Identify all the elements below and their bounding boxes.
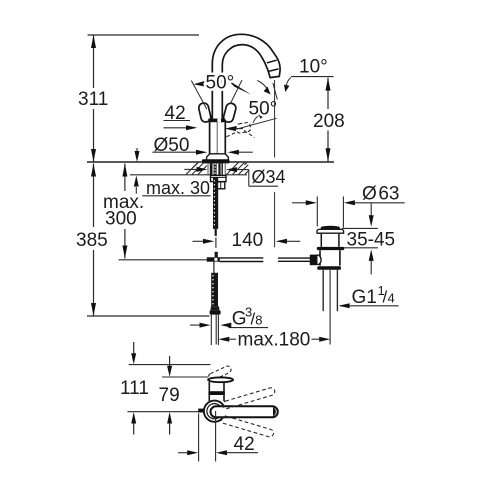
side view solid spout bar (211, 406, 278, 417)
42 arrowhead (186, 125, 197, 130)
dashed connector lower (244, 131, 255, 138)
50 deg swivel lower arc tail (253, 116, 259, 124)
Ø63 extension line right (342, 196, 344, 227)
body right side (224, 122, 226, 155)
spout aerator band line 2 (268, 69, 278, 72)
shank left arrow tail (184, 168, 197, 170)
side view spout bar end cap (273, 407, 276, 416)
140 right arrow tail (286, 240, 300, 242)
svg-text:140: 140 (232, 230, 264, 251)
50 deg swivel slanted line (237, 118, 277, 129)
drain tailpipe inner line (329, 270, 331, 345)
svg-text:max. 30: max. 30 (146, 178, 210, 198)
42 bottom right extension line (215, 411, 217, 462)
drain flange neck (321, 234, 339, 247)
side view mid reference line (79) (162, 376, 208, 378)
svg-text:79: 79 (159, 385, 180, 406)
counter-side left arrowhead at body (225, 126, 236, 131)
node 385 dimension line lower segment (93, 250, 95, 316)
spout axis tilted line (273, 83, 277, 100)
linkage rod left segment (220, 258, 264, 262)
escutcheon dark band (202, 159, 230, 163)
node 311 arrow down (91, 149, 96, 162)
svg-text:Ø 63: Ø 63 (362, 183, 400, 204)
208 dimension line upper segment (327, 78, 329, 109)
mounting washer and nut (211, 175, 227, 181)
drain flange disc (317, 229, 344, 233)
node max300 dimension line upper segment (124, 164, 126, 192)
upper hose braid dots (213, 180, 215, 226)
node max30 upper arrow (136, 148, 138, 152)
side view lever cap ellipse (208, 377, 233, 382)
max180 right tail (312, 338, 322, 340)
pull rod tick above linkage (215, 252, 218, 258)
dashed connector to swung spout (227, 132, 237, 137)
dashed swung spout tip (front view) (236, 122, 251, 133)
counter hatch right (227, 162, 250, 174)
Ø63 left arrow tail (292, 202, 307, 204)
Ø63 right arrowhead (344, 200, 355, 205)
42 underline (164, 120, 191, 122)
G3/8 underline (228, 327, 268, 329)
svg-text:10°: 10° (299, 56, 328, 77)
node 385 arrow down (91, 303, 96, 316)
svg-text:Ø34: Ø34 (252, 167, 286, 187)
50 deg swivel upper arrowhead (264, 87, 271, 95)
pull rod segment (215, 238, 217, 248)
svg-text:8: 8 (255, 312, 262, 327)
Ø63 left arrowhead (306, 200, 317, 205)
side view spout left tick (198, 409, 203, 413)
Ø34 underline (249, 185, 278, 187)
cartridge cap dark band (208, 119, 225, 123)
svg-text:max.180: max.180 (238, 329, 311, 350)
max180 right arrowhead (319, 337, 330, 342)
lever handle left position (198, 102, 212, 123)
lower hose braid dots (212, 275, 214, 305)
35-45 down arrow stem (370, 204, 372, 217)
Ø50 left arrowhead (196, 150, 207, 155)
node max30 lower arrow (135, 187, 137, 194)
G1 1/4 underline (340, 305, 399, 307)
counter hole left edge (207, 163, 209, 175)
50 deg swivel lower arrowhead (257, 109, 270, 119)
side view body dark ring (208, 391, 224, 395)
side view dashed spout upper (222, 387, 276, 410)
Ø50 leader line (152, 151, 197, 153)
G3/8 connector tube (211, 315, 218, 345)
node 311 dimension line lower segment (93, 109, 95, 162)
svg-text:300: 300 (105, 209, 137, 230)
node 385 dimension line upper segment (93, 164, 95, 228)
140 left arrowhead (203, 239, 214, 244)
node max300 dimension line lower segment (124, 229, 126, 259)
35-45 up arrowhead (369, 249, 374, 261)
G3/8 left arrowhead (200, 323, 211, 328)
35-45 top reference line (342, 227, 378, 229)
node 385 arrow up (91, 164, 96, 177)
svg-text:4: 4 (388, 291, 395, 306)
Ø50 right arrowhead (228, 150, 239, 155)
Ø50 right tail (238, 151, 253, 153)
lower braided hose neck (213, 262, 215, 274)
drain flange cap (321, 226, 341, 230)
side view dashed raised lever (207, 365, 232, 381)
svg-text:311: 311 (78, 89, 108, 110)
side view body column (209, 382, 224, 401)
Ø63 right tail (354, 202, 405, 204)
Ø34 leader vertical (248, 170, 250, 187)
42 bottom right arrow (216, 450, 227, 455)
G3/8 left arrow tail (190, 324, 200, 326)
svg-text:42: 42 (234, 434, 255, 455)
Ø34 leader horizontal (236, 169, 249, 171)
spout aerator band line 1 (267, 60, 277, 63)
threaded shank stripes (210, 163, 213, 176)
Ø34 arrowhead (226, 167, 237, 172)
drain side inlet black block (310, 255, 317, 266)
111 up arrow (133, 423, 135, 435)
42 bottom left extension line (198, 414, 200, 462)
111 down arrow (133, 342, 135, 354)
max180 left arrowhead (218, 337, 229, 342)
42 arrow line (164, 127, 189, 129)
10 deg arc arrowhead (284, 85, 289, 92)
lock nut below washer (217, 182, 225, 189)
node 311 dimension line upper segment (93, 35, 95, 88)
208 arrow down (326, 148, 331, 161)
drain body (320, 250, 340, 265)
wire max300 bottom reference line (119, 259, 208, 261)
hose end fitting flare (210, 306, 219, 310)
79 down arrow (169, 356, 171, 367)
shank left arrowhead (197, 167, 208, 172)
svg-text:111: 111 (120, 378, 149, 399)
wire top extension line for 311 (88, 34, 200, 36)
side view swivel circle inner (207, 404, 222, 419)
G3/8 nut band (210, 310, 221, 314)
side view top reference line (111) (129, 364, 211, 366)
upper braided hose (213, 177, 218, 229)
counter hole right edge (224, 163, 226, 175)
side view spout axis line (bottom ref) (127, 411, 200, 413)
drain tailpipe right wall (336, 270, 338, 311)
linkage rod right segment (278, 258, 311, 261)
pop-up linkage junction black bar (207, 257, 220, 261)
35-45 bottom reference line (341, 247, 378, 249)
svg-text:50°: 50° (206, 73, 235, 94)
svg-text:208: 208 (313, 111, 345, 132)
node counter top surface line (87, 161, 334, 163)
upper hose end tip (215, 229, 217, 236)
side view swivel circle outer (204, 401, 225, 422)
svg-text:385: 385 (76, 230, 108, 251)
50 deg swivel upper arc (257, 81, 268, 91)
208 arrow up (326, 78, 331, 91)
140 left arrow tail (193, 240, 205, 242)
node max300 arrow up (122, 164, 127, 177)
Ø63 extension line left (316, 196, 318, 226)
shank thread dots (214, 164, 216, 173)
node counter bottom line right of shank (225, 174, 247, 176)
counter hatch left (186, 162, 207, 174)
208 dimension line lower segment (327, 131, 329, 162)
35-45 up arrow stem (370, 260, 372, 275)
lower braided hose (211, 273, 218, 307)
50 deg handle arc right leg (231, 80, 243, 103)
side view dashed spout lower (221, 415, 275, 438)
drain side inlet rounded piece (317, 255, 321, 264)
outlet vertical extension line upper (274, 80, 276, 158)
outlet vertical extension line lower (274, 192, 276, 247)
svg-text:50°: 50° (249, 99, 278, 120)
wire hose-end reference line at 385 bottom (87, 315, 210, 317)
node counter bottom line left of shank (130, 174, 211, 176)
50 deg handle arc left arrowhead (194, 80, 208, 87)
42 bottom left arrow (178, 452, 188, 454)
10 deg underline / 208 top reference (291, 76, 334, 78)
max180 left tail (229, 338, 237, 340)
lever handle right position (223, 102, 237, 123)
node 311 arrow up (91, 35, 96, 48)
drain clamp dark band (317, 247, 345, 250)
drain tailpipe left wall (322, 270, 324, 311)
drain bottom nut band (317, 266, 341, 270)
79 up arrow (169, 423, 171, 435)
wire max30 underline (142, 195, 210, 197)
node max300 arrow down (122, 246, 127, 259)
spout outline (riser + arc + tip) (212, 34, 280, 121)
10 deg arc (286, 78, 291, 90)
35-45 down arrowhead (369, 215, 374, 227)
body inner highlight line (216, 123, 218, 155)
G1 1/4 arrowhead (339, 303, 350, 308)
50 deg handle arc right arrowhead (228, 80, 251, 95)
G3/8 right arrowhead (220, 323, 231, 328)
svg-text:G1: G1 (352, 287, 377, 308)
140 right arrowhead (276, 239, 287, 244)
body left side (209, 122, 211, 155)
50 deg handle arc left leg (191, 81, 207, 110)
counter-side left arrow tail with dash (235, 128, 243, 130)
body base flare (206, 154, 228, 160)
